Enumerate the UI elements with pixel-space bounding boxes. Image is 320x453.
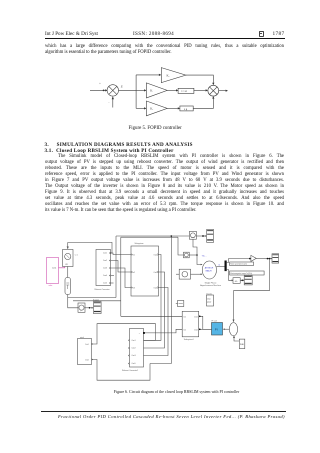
junction square at reboost + [109, 252, 111, 254]
intro paragraph [45, 44, 284, 56]
derivative block s^u [180, 106, 193, 111]
reboost converter1 (wind side) [122, 329, 144, 373]
K to scope4 [240, 279, 244, 281]
voltage measurement VM1 [63, 250, 74, 267]
wire to branch [119, 89, 137, 91]
branch vertical wire [135, 75, 137, 109]
figure 6: Simulink circuit diagram [44, 224, 300, 384]
top rail to machine area [116, 235, 189, 237]
gain KI [146, 83, 167, 98]
measurement MB1 (top) [189, 231, 196, 239]
svg-text:MACH: MACH [206, 269, 212, 272]
MB1 to scope2 [196, 235, 206, 237]
PI controller (cyan) [212, 320, 223, 335]
current measurement CM [78, 303, 85, 313]
wire subsystem Out2 down to reboost1 Con2 row [144, 272, 165, 348]
wire MB2 to Tm node [189, 254, 198, 256]
powergui block [206, 292, 213, 306]
svg-text:Out1: Out1 [194, 316, 198, 319]
wire stub Con4 [111, 275, 115, 277]
integrator block 1/s^l [178, 88, 194, 93]
gain triangle [251, 255, 256, 261]
svg-text:In2: In2 [133, 272, 135, 274]
SB stub [176, 303, 178, 305]
wire VM1 to RLC [67, 267, 69, 278]
single phase asynchronous machine [200, 261, 222, 287]
wind out1 wire wrapping over reboost1 to Con1 [92, 324, 156, 344]
header center: ISSN [133, 31, 174, 37]
wind generator block [78, 337, 92, 365]
port ticks [92, 252, 201, 364]
demux top wire [227, 258, 251, 263]
svg-text:power: power [207, 302, 212, 304]
reboost converter (PV side) [95, 250, 111, 292]
input wire [90, 89, 108, 91]
summing junction S2 [208, 85, 219, 96]
scope2 [207, 230, 214, 243]
svg-text:Con1: Con1 [52, 268, 56, 270]
scope4 [244, 276, 252, 285]
svg-text:solar: solar [49, 285, 53, 287]
svg-text:Reboost Converter: Reboost Converter [95, 288, 110, 291]
svg-text:+: + [99, 83, 101, 86]
svg-text:In2: In2 [184, 329, 186, 331]
second rail vertical (long) [120, 237, 122, 316]
subsystem (MLI) [131, 242, 159, 296]
figure 5 caption [129, 126, 182, 131]
main loop rail left-bottom [68, 297, 116, 299]
PV source block (magenta) [47, 258, 59, 284]
svg-text:Asynchronous Machine: Asynchronous Machine [200, 284, 222, 287]
svg-text:Subsystem: Subsystem [135, 242, 144, 245]
wire KI to integrator [167, 89, 178, 91]
wire VM1 top to top rail [67, 242, 69, 249]
svg-text:Discr: Discr [207, 298, 211, 300]
series RLC branch [65, 278, 71, 295]
svg-text:−: − [108, 102, 110, 105]
wire PV to measurement (magenta) [59, 264, 66, 268]
figure 5: FOPID controller block diagram [85, 60, 240, 125]
wire stub Con5 [111, 282, 114, 284]
TB stub left [176, 273, 179, 275]
MB1 bottom wire [193, 239, 197, 255]
TB to machine arrow [191, 273, 203, 275]
wire to subsystem1 In1 [121, 315, 182, 317]
sum block (ellipse) [229, 323, 237, 336]
wire top branch [136, 74, 161, 76]
second rail [73, 300, 121, 302]
main paragraph [45, 154, 284, 214]
constant to sum wire [233, 336, 239, 341]
svg-text:Out1: Out1 [85, 343, 89, 346]
demux [225, 261, 227, 272]
svg-text:C in: C in [75, 255, 78, 257]
demux bottom wire [227, 270, 234, 282]
long wire from top rail down [150, 235, 172, 363]
svg-text:E: E [120, 85, 123, 89]
wire to MB2 [178, 237, 184, 255]
svg-text:Con5: Con5 [103, 282, 107, 284]
subsystem1 output wires to PI [199, 316, 212, 331]
svg-text:Out3: Out3 [154, 286, 158, 289]
torque source block TB [179, 269, 190, 279]
wire gain to scope3 [256, 258, 272, 260]
svg-text:Scope1: Scope1 [93, 300, 99, 302]
wire deriv to summer bottom [193, 96, 214, 108]
sum to PI wire [223, 328, 230, 330]
svg-text:-K-: -K- [235, 281, 238, 283]
subsystem1 [182, 311, 199, 341]
svg-text:s μ: s μ [184, 108, 188, 111]
svg-text:Kₐ: Kₐ [150, 107, 153, 111]
svg-text:Con4: Con4 [103, 275, 107, 277]
svg-text:Con2: Con2 [132, 348, 136, 350]
K block [233, 278, 240, 284]
section heading 3 [45, 142, 193, 148]
wire subsystem Out1 down to reboost1 Con1 row [144, 255, 162, 341]
wire to summer S2 [194, 89, 208, 91]
svg-text:Out2: Out2 [194, 328, 198, 331]
main loop rail right vertical [115, 236, 117, 298]
svg-text:Reboost Converter1: Reboost Converter1 [122, 369, 138, 372]
svg-text:In3: In3 [133, 287, 135, 289]
wire reboost Con1 to subsystem In1 [111, 253, 132, 255]
measurement MB2 [184, 252, 190, 258]
svg-text:In1: In1 [184, 317, 186, 319]
svg-text:PI: PI [215, 327, 218, 331]
svg-text:Kₐ: Kₐ [167, 74, 170, 78]
header right: page number [254, 31, 285, 37]
output wire [219, 90, 228, 92]
svg-text:Con3: Con3 [132, 355, 136, 357]
wire subsystem Out3 down to reboost1 Con3 row [144, 288, 169, 356]
gain KD [146, 101, 167, 116]
svg-text:Con2: Con2 [103, 260, 107, 262]
svg-text:Con1: Con1 [103, 252, 107, 254]
wire reboost Con2 to subsystem In2 [111, 261, 132, 273]
wind out2 wire bottom loop to Con5 [92, 360, 151, 381]
svg-text:Out2: Out2 [154, 271, 158, 274]
figure 6 caption [114, 389, 239, 394]
wire KP to summer top [186, 75, 215, 85]
machine to demux wire [217, 265, 225, 267]
header icon [259, 31, 265, 37]
speed feedback wire [234, 259, 270, 322]
header left: journal name [45, 31, 98, 37]
scope3 [272, 254, 279, 263]
svg-text:Out1: Out1 [154, 253, 158, 256]
reference constant block [239, 339, 245, 349]
rotor speed label box [230, 262, 254, 266]
section heading 3.1 [45, 148, 174, 154]
second top rail [121, 236, 178, 238]
junction square at reboost1 + [143, 332, 145, 334]
svg-text:Subsystem1: Subsystem1 [184, 338, 194, 341]
svg-text:Con3: Con3 [103, 267, 107, 269]
small block SB feeding subsystem1 [178, 301, 184, 307]
svg-text:1 / sλ: 1 / sλ [181, 90, 187, 93]
header rule [45, 37, 285, 40]
gain KP [161, 68, 186, 83]
wire down to machine upper port [197, 255, 203, 265]
svg-text:Single Phase: Single Phase [205, 282, 218, 284]
svg-text:Tm…: Tm… [202, 256, 207, 258]
svg-text:In1: In1 [133, 254, 135, 256]
wire reboost1 + to subsystem1 In2 [145, 329, 182, 333]
svg-text:Con1: Con1 [132, 340, 136, 342]
footer text [58, 414, 285, 419]
top rail to reboost + [68, 242, 112, 253]
wire CM to scope1 [85, 307, 94, 309]
footer rule [41, 410, 286, 413]
torque label box [230, 271, 265, 275]
svg-text:Con5: Con5 [132, 363, 136, 365]
wire bottom branch [136, 107, 146, 109]
wire mid branch [136, 89, 146, 91]
wire KD to derivative block [167, 107, 180, 109]
wire RLC down to current measure [68, 295, 78, 308]
wire reboost Con3 to subsystem In3 [111, 268, 132, 288]
svg-text:ASYNCH: ASYNCH [205, 267, 214, 270]
scope1 [93, 300, 101, 314]
summing junction S1 [107, 85, 118, 96]
svg-text:Out2: Out2 [85, 358, 89, 361]
feedback stub [108, 96, 114, 107]
